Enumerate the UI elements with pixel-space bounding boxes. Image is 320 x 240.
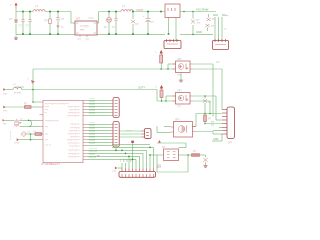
resistor R6 and LED D8 — [192, 154, 200, 157]
svg-text:D?: D? — [208, 101, 212, 104]
svg-text:??????: ?????? — [89, 137, 97, 139]
svg-text:??(???)????: ??(???)???? — [68, 156, 80, 158]
svg-text:??(???)???: ??(???)??? — [69, 110, 80, 112]
svg-text:?????(??????): ?????(??????) — [45, 120, 59, 122]
svg-text:GND: GND — [213, 138, 219, 141]
svg-text:D?: D? — [104, 26, 108, 29]
ground LED — [203, 166, 208, 168]
svg-text:??????: ?????? — [89, 104, 97, 106]
svg-text:??????: ?????? — [89, 113, 97, 115]
svg-text:??? ??: ??? ?? — [45, 145, 52, 147]
svg-text:VOUT: VOUT — [136, 8, 144, 12]
inductor L3 ferrite — [13, 87, 22, 89]
svg-text:VCC-RAW: VCC-RAW — [196, 8, 209, 12]
resistor R2 — [49, 12, 51, 35]
U1 internal pin names — [45, 103, 70, 147]
svg-text:JP?: JP? — [228, 142, 233, 145]
svg-text:C?: C? — [112, 26, 116, 29]
inductor L1 — [33, 10, 45, 12]
svg-text:??.?????: ??.????? — [11, 130, 13, 140]
svg-text:??????: ?????? — [89, 134, 97, 136]
svg-text:??????: ?????? — [89, 98, 97, 100]
crystal Q1 with wires — [5, 120, 40, 126]
net flag reset row — [19, 139, 40, 141]
connector SV2 — [113, 122, 119, 148]
svg-text:R?: R? — [24, 103, 28, 106]
svg-text:???: ??? — [3, 93, 8, 96]
svg-text:???: ??? — [77, 39, 82, 42]
wire D1 branch — [15, 12, 17, 35]
capacitor C4 — [115, 12, 117, 35]
connector SV1 — [113, 98, 119, 118]
svg-text:???: ??? — [177, 106, 182, 109]
svg-text:???: ??? — [85, 39, 90, 42]
IC1 bottom pins GND/FB — [80, 35, 87, 37]
connector SV3 — [145, 129, 152, 139]
wire OUT1 long — [33, 68, 176, 70]
svg-text:R?: R? — [193, 150, 197, 153]
connector J3 output header — [227, 107, 235, 139]
svg-text:???-???: ???-??? — [89, 157, 97, 159]
node junctions bottom bus — [115, 147, 151, 161]
wire OK1 outputs — [193, 64, 222, 117]
resistor R4 pullup with VCC arrow — [160, 85, 163, 88]
svg-text:????(??)???: ????(??)??? — [68, 153, 80, 155]
diode D7 and resistor R5 — [203, 99, 207, 103]
svg-text:???: ??? — [131, 159, 133, 162]
regulator IC1 — [75, 21, 97, 35]
svg-text:??(????)???: ??(????)??? — [68, 106, 80, 108]
ground LED — [14, 34, 18, 39]
optocoupler OK2 — [176, 93, 191, 105]
connector J1 — [164, 41, 181, 49]
svg-text:????: ???? — [88, 17, 94, 21]
svg-text:L?: L? — [122, 4, 126, 8]
capacitor C1 x23 — [22, 12, 24, 35]
svg-text:A?: A? — [162, 146, 166, 149]
supply symbol VCC arrow — [158, 140, 161, 143]
capacitor C5 electrolytic — [147, 12, 149, 35]
capacitor C2 x30 — [29, 12, 31, 35]
wire OK2 output network — [193, 96, 223, 127]
svg-text:?(?????)???: ?(?????)??? — [68, 143, 80, 145]
svg-text:??????: ?????? — [89, 107, 97, 109]
svg-text:??: ?? — [224, 29, 227, 31]
svg-text:???: ??? — [80, 29, 85, 32]
svg-text:???-??: ???-?? — [89, 154, 96, 156]
svg-text:???: ??? — [225, 16, 229, 18]
svg-text:?u: ?u — [61, 25, 64, 29]
svg-text:???: ??? — [127, 159, 129, 162]
svg-text:C?: C? — [61, 17, 65, 21]
svg-text:??: ?? — [211, 124, 214, 127]
wire U1 port A to SV1 — [83, 100, 113, 115]
capacitor C3 electrolytic — [57, 12, 59, 35]
net flag J4 pin1 — [118, 167, 123, 169]
jumper SJ1 — [165, 4, 180, 18]
svg-text:???-???: ???-??? — [15, 86, 24, 89]
svg-text:?: ? — [27, 79, 29, 82]
svg-text:??(??)???: ??(??)??? — [70, 124, 80, 126]
svg-text:???: ??? — [157, 165, 162, 168]
svg-text:???: ??? — [197, 22, 202, 25]
optocoupler OK1 — [176, 61, 191, 73]
svg-text:GND: GND — [196, 30, 202, 34]
svg-text:??(????)??: ??(????)?? — [69, 130, 80, 132]
wire U1 port C to J4 — [83, 150, 87, 159]
svg-text:OK?: OK? — [177, 58, 182, 61]
net flag OUT2 — [3, 88, 5, 91]
svg-text:??????: ?????? — [89, 143, 97, 145]
diodes D5 D6 ESD — [205, 18, 210, 27]
svg-text:??????: ?????? — [89, 128, 97, 130]
svg-text:C?: C? — [26, 24, 30, 28]
diode D4 — [192, 12, 194, 35]
svg-text:L?: L? — [35, 4, 39, 8]
wire bottom bus — [112, 143, 154, 169]
svg-text:????-???: ????-??? — [89, 151, 98, 153]
svg-text:?(????)????: ?(????)???? — [68, 113, 80, 115]
wire VIN top rail — [16, 9, 75, 24]
ground OK1 — [180, 73, 182, 81]
svg-text:SDA: SDA — [213, 14, 218, 17]
svg-text:?????(??): ?????(??) — [70, 127, 80, 129]
diode D2 — [108, 12, 110, 35]
wire VOUT rail — [97, 12, 165, 35]
svg-text:???: ??? — [120, 159, 122, 162]
diode D1 — [14, 20, 17, 23]
svg-text:OK?: OK? — [177, 90, 182, 93]
svg-text:??????: ?????? — [89, 125, 97, 127]
svg-text:SP?: SP? — [175, 119, 180, 122]
svg-text:???(???)??: ???(???)?? — [69, 146, 80, 148]
svg-text:OUT?: OUT? — [138, 86, 145, 90]
svg-text:?????: ????? — [126, 130, 132, 132]
diode D3 schottky — [132, 12, 134, 35]
svg-text:????: ???? — [14, 143, 20, 145]
net flag VCC mark — [31, 80, 35, 84]
svg-text:?: ? — [128, 142, 130, 144]
svg-text:C?: C? — [19, 24, 23, 28]
oscillator Q2 and resistor R7 — [22, 132, 26, 136]
svg-text:???: ??? — [3, 110, 8, 113]
svg-text:??(????)???: ??(????)??? — [68, 150, 80, 152]
svg-text:??????: ?????? — [89, 110, 97, 112]
svg-text:???: ??? — [112, 171, 117, 174]
IC2 module — [164, 149, 179, 161]
svg-text:???(???)???: ???(???)??? — [68, 134, 80, 136]
svg-text:??????: ?????? — [89, 131, 97, 133]
wire OUT2 long — [6, 89, 13, 91]
svg-text:??(?????)???: ??(?????)??? — [67, 116, 81, 118]
jumper JP1 — [131, 141, 134, 143]
svg-text:??????: ?????? — [89, 140, 97, 142]
svg-text:?(??)????: ?(??)???? — [70, 137, 80, 139]
svg-text:R?: R? — [45, 19, 49, 23]
svg-text:+: + — [143, 15, 145, 18]
svg-text:IC?: IC? — [76, 17, 81, 21]
svg-text:?: ? — [155, 52, 157, 55]
svg-text:D?: D? — [211, 25, 215, 28]
svg-text:C?: C? — [151, 21, 155, 24]
resistor R3 pullup with VCC arrow — [160, 50, 163, 53]
wire SP1 connections — [157, 126, 222, 134]
svg-text:?? ???: ?? ??? — [14, 93, 22, 95]
wire U1 port B to SV2 — [83, 124, 113, 145]
inductor L2 — [121, 10, 133, 12]
svg-text:D?: D? — [136, 23, 140, 26]
svg-text:???: ??? — [124, 159, 126, 162]
connector J4 bottom header — [119, 172, 156, 178]
svg-text:U? ATMEGA??: U? ATMEGA?? — [41, 162, 60, 166]
svg-text:????(????)??: ????(????)?? — [67, 140, 81, 142]
svg-text:??(????)/??? ??(???)????: ??(????)/??? ??(???)???? — [45, 103, 70, 105]
wire SJ1 to GND and J1 — [169, 12, 217, 41]
U1 left pin stubs — [40, 102, 44, 140]
svg-text:D?: D? — [9, 17, 13, 21]
buzzer SP1 — [174, 122, 193, 138]
svg-text:???: ??? — [3, 124, 8, 126]
node junctions output rail — [108, 11, 170, 36]
svg-text:?: ? — [155, 86, 157, 89]
node junctions input rail — [22, 11, 59, 36]
svg-text:??????: ?????? — [89, 101, 97, 103]
svg-text:??????: ?????? — [89, 122, 97, 124]
svg-text:?: ? — [10, 5, 12, 7]
svg-text:???: ??? — [216, 62, 220, 64]
connector J2 I2C — [215, 17, 222, 41]
svg-text:????-???: ????-??? — [89, 148, 98, 150]
net labels J4 pins — [120, 159, 133, 162]
wire GND rail left — [16, 33, 75, 35]
